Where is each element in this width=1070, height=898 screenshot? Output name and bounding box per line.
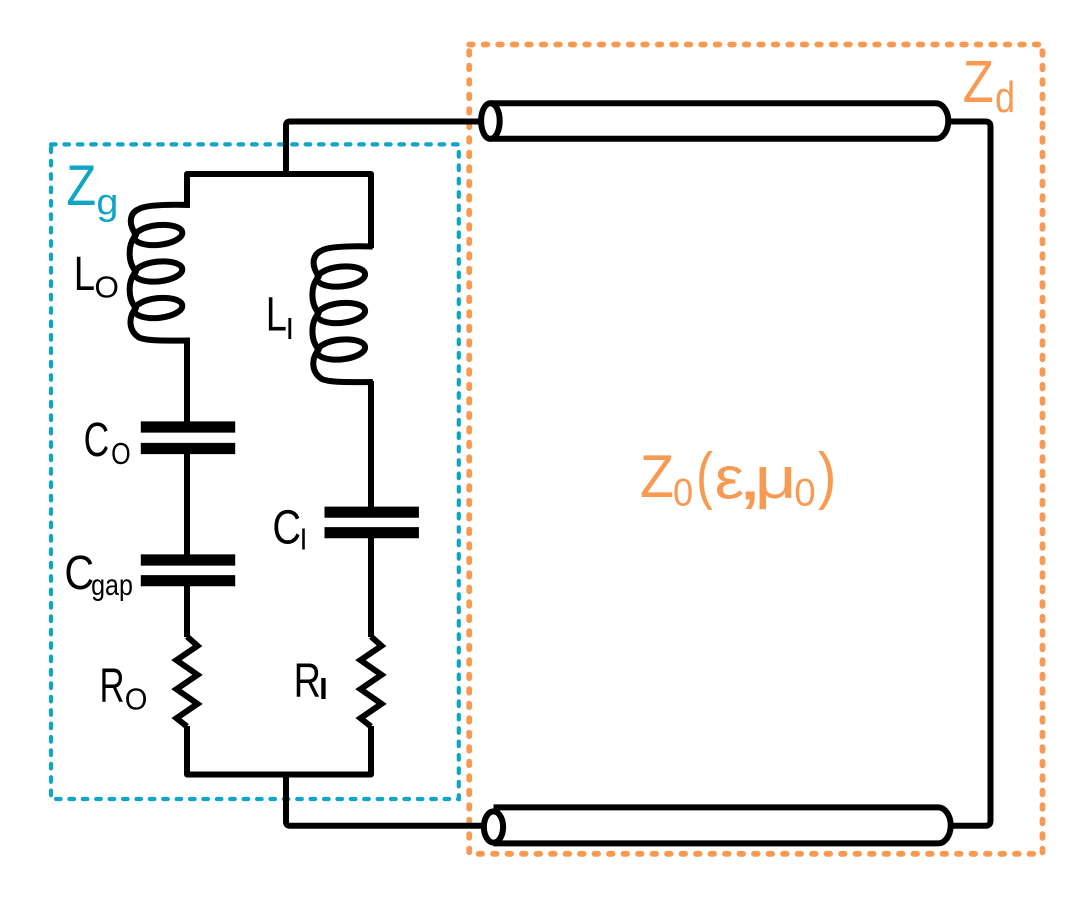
svg-text:Z: Z — [963, 48, 994, 115]
inductor LO — [130, 205, 190, 341]
transmission line bottom conductor — [494, 807, 951, 843]
svg-text:0: 0 — [794, 471, 815, 514]
svg-text:C: C — [64, 545, 94, 600]
svg-text:μ: μ — [755, 446, 797, 511]
svg-text:R: R — [100, 658, 125, 712]
svg-text:(: ( — [696, 441, 713, 512]
resistor RI — [361, 637, 382, 727]
capacitor Cgap — [141, 554, 235, 565]
svg-text:L: L — [266, 288, 287, 341]
svg-text:I: I — [317, 671, 330, 706]
inductor LI — [312, 246, 372, 382]
wire CI to RI — [368, 532, 374, 637]
wire LI to CI — [368, 381, 374, 512]
svg-text:0: 0 — [673, 470, 693, 513]
svg-text:g: g — [96, 182, 118, 224]
svg-text:d: d — [995, 73, 1015, 122]
wire bottom feed — [286, 775, 490, 826]
wire LO to CO — [184, 340, 190, 428]
svg-text:O: O — [125, 682, 148, 716]
svg-text:O: O — [94, 270, 119, 305]
wire right side (transmission line return) — [946, 122, 991, 826]
svg-text:O: O — [111, 435, 131, 470]
svg-text:I: I — [300, 522, 308, 557]
svg-text:Z: Z — [66, 154, 96, 218]
svg-text:C: C — [272, 501, 301, 555]
svg-text:Z: Z — [640, 444, 674, 510]
svg-text:gap: gap — [91, 568, 133, 601]
impedance box Zg (dashed teal) — [51, 144, 459, 799]
capacitor CO — [141, 421, 235, 432]
svg-text:): ) — [818, 440, 836, 511]
svg-text:C: C — [84, 412, 110, 466]
wire top rail with branch stubs — [187, 174, 371, 248]
svg-text:L: L — [74, 246, 95, 300]
wire bottom rail with branch stubs — [187, 726, 371, 775]
resistor RO — [177, 637, 198, 727]
wire Cgap to RO — [184, 580, 190, 637]
wire CO to Cgap — [184, 448, 190, 560]
impedance box Zd (dashed orange) — [469, 45, 1042, 854]
svg-text:I: I — [286, 311, 295, 346]
transmission line top conductor — [490, 103, 948, 139]
capacitor CI — [325, 507, 419, 518]
wire top feed — [286, 122, 490, 175]
